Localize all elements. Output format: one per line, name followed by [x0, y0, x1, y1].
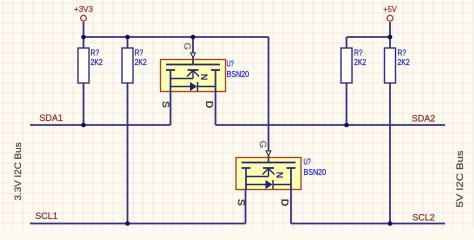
wire U?(1) gate pin — [192, 37, 194, 65]
junction R4/SCL2 — [388, 221, 393, 226]
junction R1/SDA1 — [81, 123, 86, 128]
svg-text:G: G — [257, 141, 268, 148]
svg-text:N: N — [275, 172, 285, 179]
svg-text:U?: U? — [227, 59, 235, 69]
wire +5V to resistor R4 — [389, 22, 391, 48]
wire U?(1) drain pin — [215, 70, 217, 125]
resistor R1 — [78, 48, 103, 83]
junction R2 top — [125, 35, 130, 40]
wire net SDA1 — [30, 124, 171, 126]
transistor U? (1) BSN20 — [160, 43, 250, 109]
resistor R4 — [385, 48, 411, 83]
power port +3V3 — [74, 5, 93, 21]
junction U?(1) gate — [191, 35, 196, 40]
wire resistor R1 top lead — [83, 37, 85, 48]
svg-text:2K2: 2K2 — [135, 57, 148, 67]
svg-text:+3V3: +3V3 — [74, 5, 93, 14]
wire +3V3 to junction — [83, 22, 85, 37]
junction +5V/R4 — [388, 35, 393, 40]
wire U?(2) source pin — [245, 168, 247, 224]
junction R2/SCL1 — [125, 221, 130, 226]
pin arrow U?(1) gate — [191, 53, 196, 58]
wire +5V rail horizontal — [347, 36, 391, 38]
svg-text:S: S — [235, 199, 247, 206]
wire U?(1) source pin — [170, 70, 172, 125]
wire U?(2) drain pin — [290, 168, 292, 224]
wire resistor R3 bottom lead — [346, 83, 348, 125]
resistor R3 — [341, 48, 367, 83]
junction R3/SDA2 — [344, 123, 349, 128]
wire resistor R3 top lead — [346, 37, 348, 48]
svg-text:2K2: 2K2 — [398, 57, 411, 67]
svg-text:SDA2: SDA2 — [412, 113, 436, 123]
wire net SDA2 — [216, 124, 446, 126]
svg-text:+5V: +5V — [383, 5, 397, 14]
svg-text:D: D — [279, 199, 291, 207]
svg-text:BSN20: BSN20 — [304, 167, 327, 177]
svg-text:SCL2: SCL2 — [412, 213, 435, 223]
junction +3V3/R1 — [81, 35, 86, 40]
svg-text:G: G — [182, 43, 193, 50]
wire top horizontal 3V3 rail to gates — [84, 36, 269, 38]
wire resistor R2 top lead — [127, 37, 129, 48]
wire net SCL1 — [30, 223, 246, 225]
wire resistor R4 bottom lead — [389, 83, 391, 224]
wire gate feed down to U? (2) gate — [268, 37, 270, 163]
svg-text:SCL1: SCL1 — [35, 211, 58, 221]
transistor U? (2) BSN20 — [235, 141, 326, 207]
svg-text:2K2: 2K2 — [91, 57, 104, 67]
svg-text:5V I2C Bus: 5V I2C Bus — [455, 150, 466, 207]
pin arrow U?(2) gate — [266, 151, 271, 156]
svg-text:U?: U? — [304, 157, 312, 167]
svg-text:D: D — [203, 101, 215, 109]
svg-text:3.3V I2C Bus: 3.3V I2C Bus — [13, 142, 24, 200]
power port +5V — [383, 5, 397, 21]
svg-text:N: N — [199, 74, 209, 81]
wire resistor R2 bottom lead — [127, 83, 129, 224]
svg-text:SDA1: SDA1 — [39, 113, 63, 123]
svg-text:2K2: 2K2 — [354, 57, 367, 67]
svg-text:BSN20: BSN20 — [227, 69, 250, 79]
resistor R2 — [122, 48, 147, 83]
wire resistor R1 bottom lead — [83, 83, 85, 125]
svg-text:S: S — [160, 101, 172, 108]
wire net SCL2 — [291, 223, 445, 225]
